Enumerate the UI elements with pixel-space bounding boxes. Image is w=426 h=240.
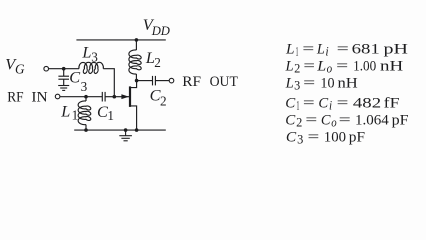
transistor Q1 (MESFET) gate wire [114,96,129,98]
transistor Q1 channel bar [129,86,131,107]
svg-text:C: C [69,67,81,86]
svg-text:C1​=Ci​=482fF: C1​=Ci​=482fF [285,95,399,113]
svg-text:1: 1 [107,108,114,123]
svg-text:OUT: OUT [210,74,238,90]
VDD rail [76,39,165,41]
svg-text:L: L [81,43,91,62]
source lead [130,106,137,130]
capacitor C2 [137,76,170,86]
svg-text:C3​=100pF: C3​=100pF [286,129,365,147]
svg-text:L3​=10nH: L3​=10nH [285,74,358,92]
terminal VG [44,66,49,71]
svg-text:L: L [60,101,70,120]
inductor L1 [85,97,87,101]
svg-text:IN: IN [31,90,48,106]
capacitor C1 [102,92,114,102]
node C3/L3 junction [62,67,66,71]
ground rail [74,129,166,131]
svg-text:L1​=Li​=681pH: L1​=Li​=681pH [285,41,408,59]
svg-text:G: G [15,62,25,77]
node L1-ground junction [84,128,88,132]
svg-text:L2​=Lo​=1.00nH: L2​=Lo​=1.00nH [285,58,404,76]
wire L3 to corner [103,69,114,97]
node drain junction [135,79,139,83]
svg-text:3: 3 [81,79,88,94]
svg-text:RF: RF [7,90,23,106]
ground (main) [124,128,128,132]
inductor L3 [79,62,103,73]
svg-text:3: 3 [91,50,98,65]
terminal RF IN [55,94,60,99]
svg-text:C2​=Co​=1.064pF: C2​=Co​=1.064pF [285,112,408,130]
svg-text:DD: DD [151,24,170,38]
ground (C3) [58,86,69,91]
node VDD junction [135,38,139,42]
svg-text:RF: RF [182,74,201,90]
svg-text:2: 2 [154,55,161,70]
svg-text:1: 1 [72,108,79,123]
svg-text:2: 2 [160,94,167,109]
wire RFIN to C1 [60,96,102,98]
node source-ground junction [135,128,139,132]
gate arrow [121,94,128,99]
wire VG to node [49,68,79,70]
capacitor C3 [58,69,69,86]
drain lead [130,81,137,88]
node gate junction [113,95,117,99]
node L1 junction [84,95,88,99]
terminal RF OUT [169,78,174,83]
inductor L2 [135,40,137,50]
